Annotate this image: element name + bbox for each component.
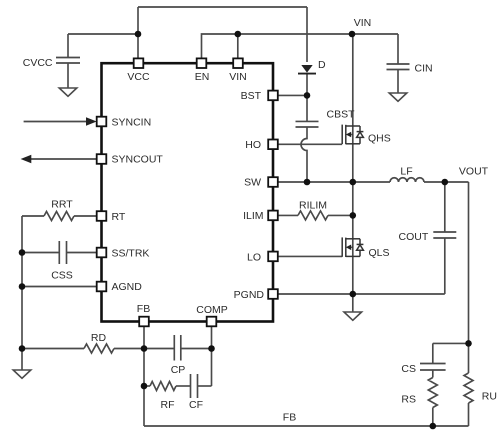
svg-text:VIN: VIN — [229, 71, 247, 83]
svg-text:SYNCIN: SYNCIN — [112, 116, 152, 128]
svg-text:RILIM: RILIM — [299, 200, 327, 212]
svg-text:QHS: QHS — [368, 133, 391, 145]
svg-text:LO: LO — [247, 251, 261, 263]
svg-text:CF: CF — [189, 399, 203, 411]
svg-text:SW: SW — [244, 176, 261, 188]
svg-text:PGND: PGND — [234, 289, 265, 301]
svg-text:FB: FB — [283, 412, 296, 424]
svg-text:QLS: QLS — [369, 247, 390, 259]
svg-text:RF: RF — [161, 399, 175, 411]
svg-text:HO: HO — [245, 139, 261, 151]
svg-text:VIN: VIN — [354, 17, 372, 29]
svg-text:COMP: COMP — [196, 304, 228, 316]
svg-text:AGND: AGND — [112, 281, 143, 293]
svg-text:ILIM: ILIM — [243, 210, 263, 222]
svg-text:RS: RS — [401, 394, 416, 406]
svg-text:D: D — [318, 59, 326, 71]
svg-text:CIN: CIN — [415, 63, 433, 75]
svg-text:VOUT: VOUT — [459, 166, 489, 178]
svg-text:CVCC: CVCC — [23, 57, 53, 69]
svg-text:RU: RU — [482, 391, 497, 403]
svg-text:RT: RT — [112, 211, 126, 223]
svg-text:CS: CS — [401, 363, 416, 375]
svg-text:SYNCOUT: SYNCOUT — [112, 153, 164, 165]
svg-text:COUT: COUT — [399, 231, 429, 243]
svg-text:SS/TRK: SS/TRK — [112, 247, 150, 259]
svg-text:BST: BST — [241, 90, 262, 102]
svg-text:RRT: RRT — [51, 199, 73, 211]
svg-text:CP: CP — [171, 364, 186, 376]
svg-text:CBST: CBST — [327, 109, 356, 121]
svg-text:RD: RD — [91, 332, 107, 344]
svg-text:EN: EN — [195, 71, 210, 83]
svg-text:FB: FB — [137, 303, 150, 315]
svg-text:CSS: CSS — [51, 269, 73, 281]
svg-text:VCC: VCC — [127, 71, 150, 83]
svg-text:LF: LF — [400, 166, 412, 178]
